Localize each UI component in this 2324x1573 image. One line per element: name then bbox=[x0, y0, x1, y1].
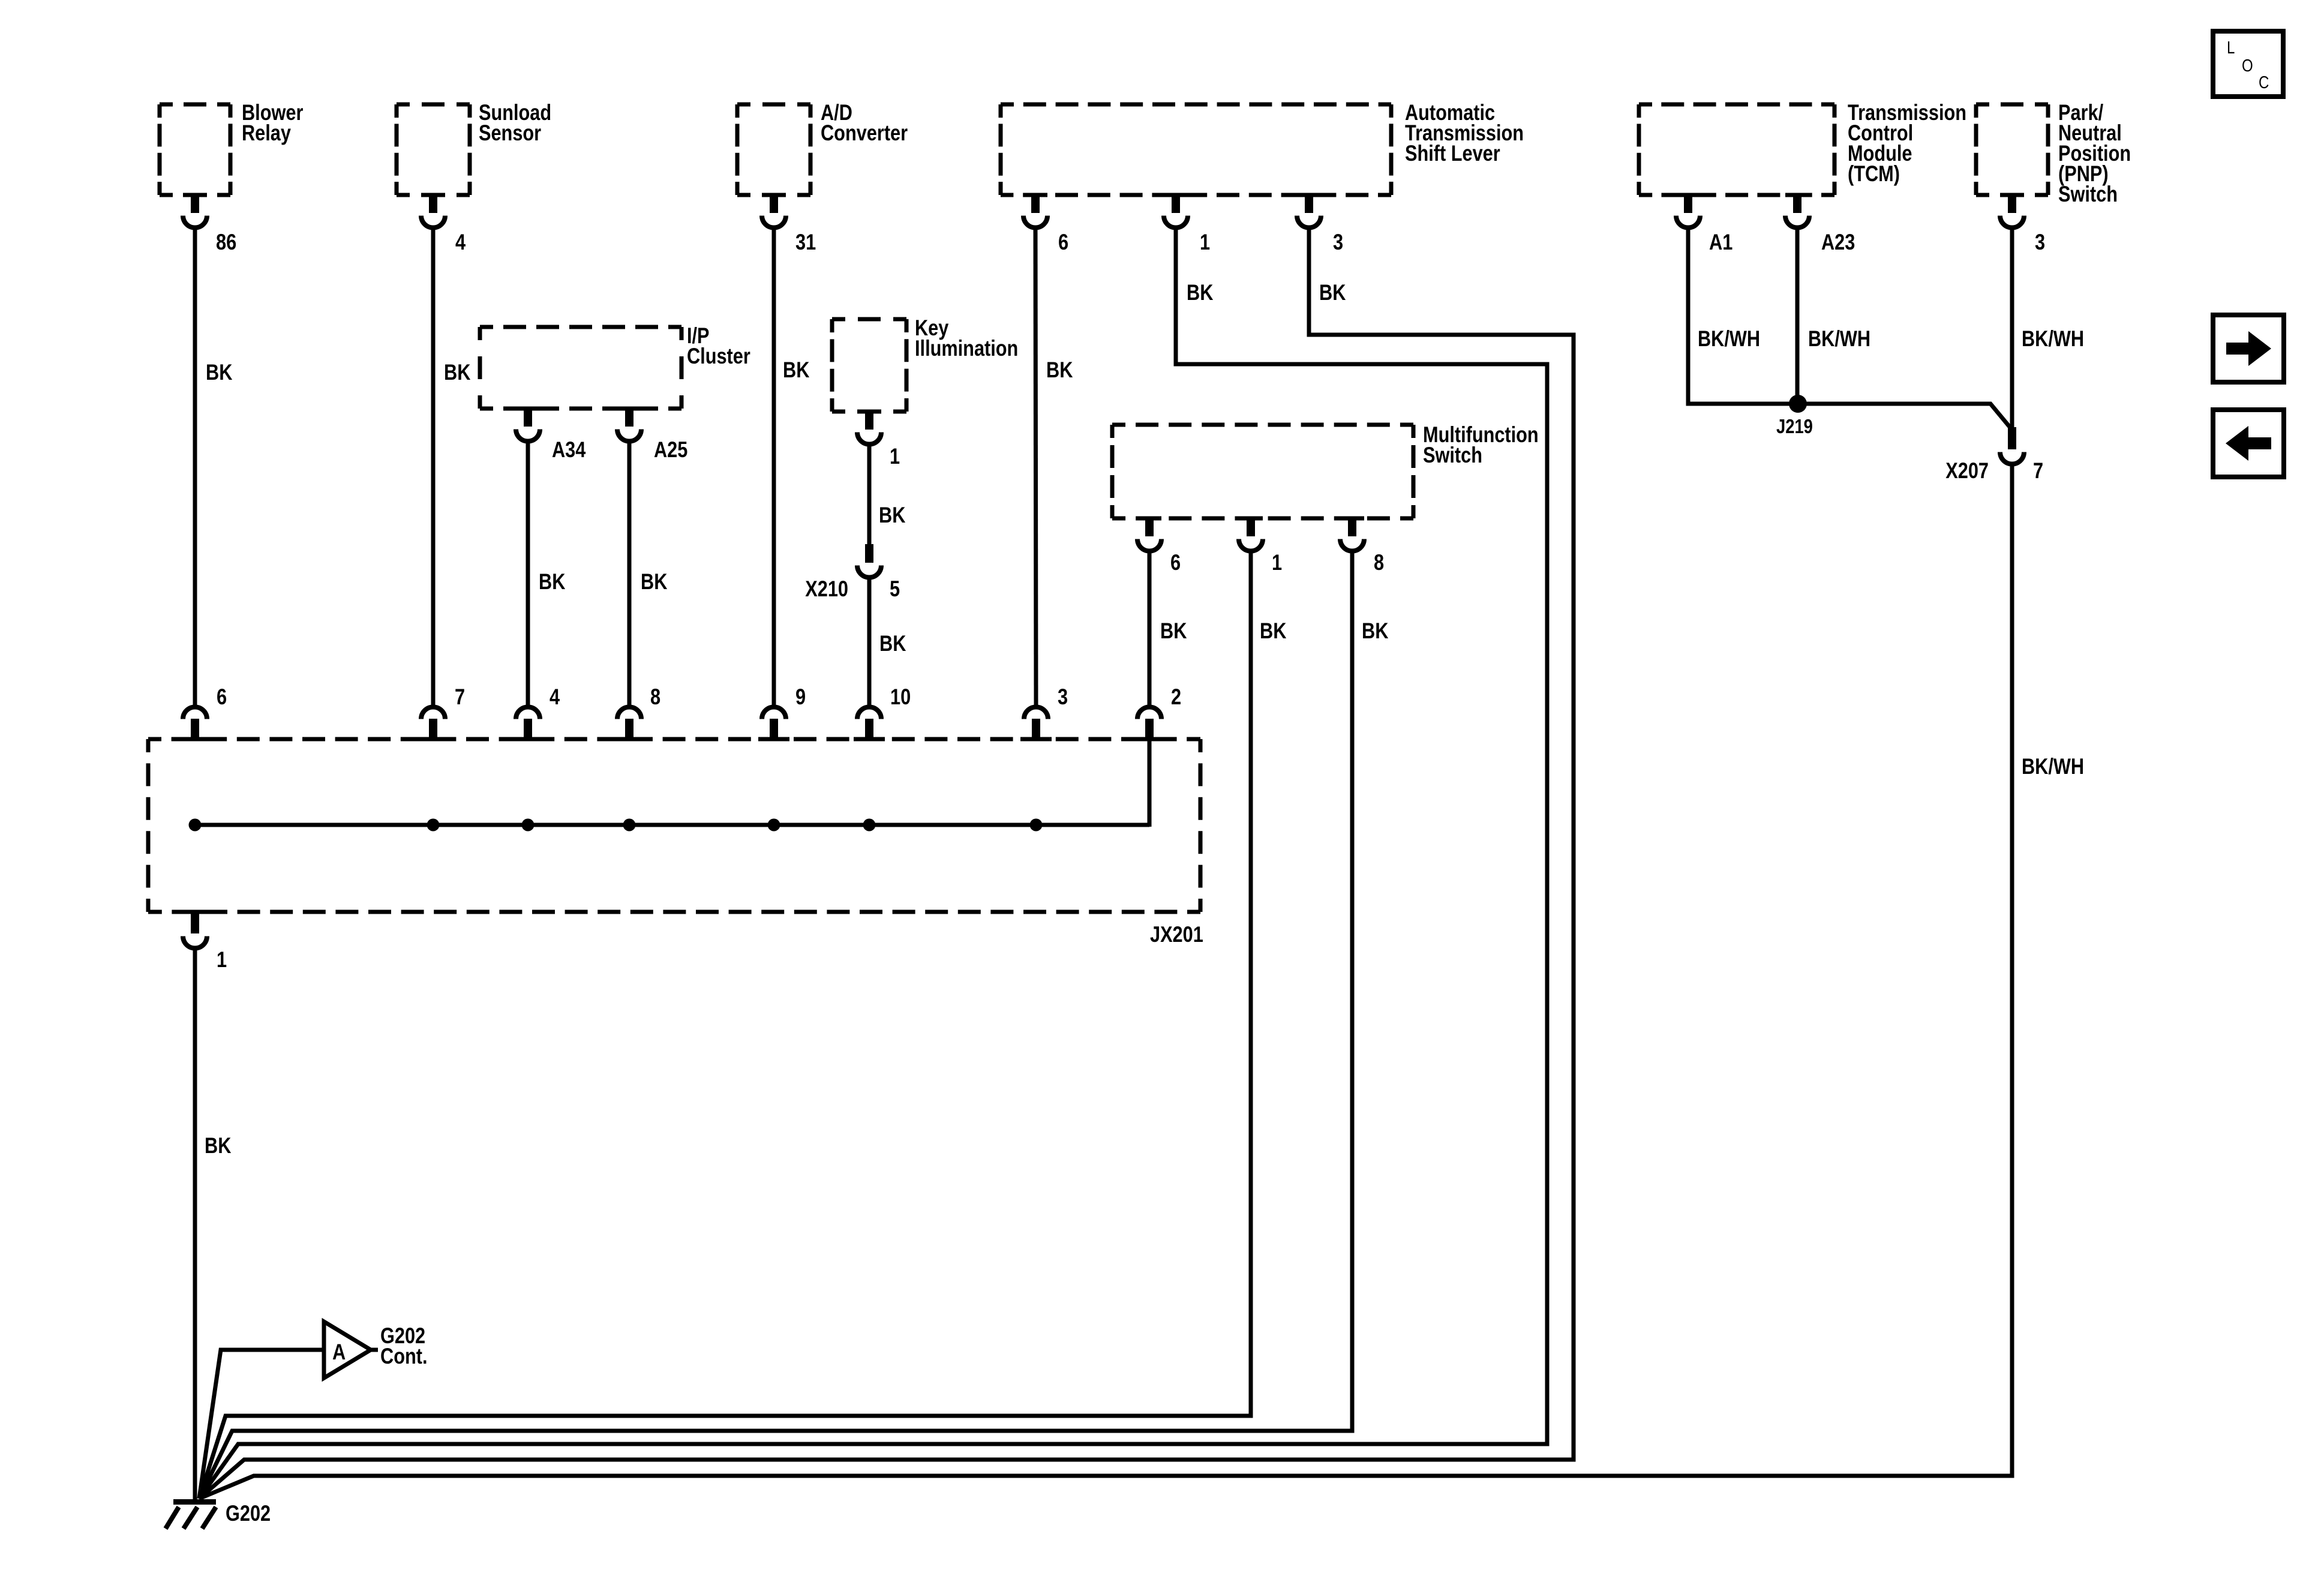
svg-text:C: C bbox=[2259, 73, 2269, 92]
pin A34 I/P Cluster bbox=[516, 407, 540, 411]
svg-text:BK/WH: BK/WH bbox=[2022, 754, 2084, 779]
wire Shift Lever 6 to JX201 pin 3 (BK) bbox=[1035, 226, 1036, 706]
svg-text:1: 1 bbox=[1200, 230, 1210, 254]
junction dot on JX201 bus at x=1727 bbox=[1030, 819, 1043, 831]
svg-text:31: 31 bbox=[795, 230, 816, 254]
pin 4 Sunload Sensor bbox=[421, 193, 445, 197]
svg-text:X207: X207 bbox=[1945, 458, 1989, 483]
wire I/P Cluster A25 to JX201 pin 8 (BK) bbox=[627, 439, 632, 706]
svg-text:A1: A1 bbox=[1709, 230, 1733, 254]
box Sunload Sensor bbox=[397, 103, 470, 107]
pin 86 Blower Relay bbox=[183, 193, 207, 197]
wire splice run A1-J219-X207 bbox=[1688, 404, 2011, 428]
svg-text:2: 2 bbox=[1171, 685, 1181, 709]
JX201 pin 3 bbox=[1024, 707, 1048, 719]
svg-text:BK: BK bbox=[1260, 619, 1287, 643]
svg-text:A: A bbox=[332, 1340, 346, 1364]
pin 1 Multifunction Switch bbox=[1239, 517, 1263, 521]
svg-text:3: 3 bbox=[2035, 230, 2045, 254]
box Park/Neutral Position PNP Switch bbox=[1976, 103, 2048, 107]
wire X210 to JX201 pin 10 (BK) bbox=[867, 577, 872, 706]
box Blower Relay bbox=[160, 103, 230, 107]
JX201 pin 4 bbox=[516, 707, 540, 719]
wire Blower Relay 86 to JX201 pin 6 (BK) bbox=[193, 226, 197, 706]
arrow next page (right) bbox=[2213, 315, 2284, 382]
svg-text:O: O bbox=[2242, 56, 2253, 76]
box JX201 junction block bbox=[148, 737, 1200, 742]
wire JX201 pin 2 to bus bbox=[1148, 741, 1152, 827]
svg-text:7: 7 bbox=[2033, 458, 2043, 483]
junction dot on JX201 bus at x=722 bbox=[427, 819, 440, 831]
JX201 pin 7 bbox=[421, 707, 445, 719]
arrow previous page (left) bbox=[2213, 410, 2284, 477]
svg-text:10: 10 bbox=[890, 685, 911, 709]
svg-text:BK: BK bbox=[1046, 358, 1073, 382]
JX201 pin 9 bbox=[762, 707, 786, 719]
JX201 pin 2 bbox=[1137, 707, 1161, 719]
svg-text:G202: G202 bbox=[226, 1501, 271, 1526]
svg-text:8: 8 bbox=[650, 685, 660, 709]
svg-text:Sensor: Sensor bbox=[479, 121, 541, 145]
svg-text:Switch: Switch bbox=[2058, 182, 2118, 206]
junction dot on JX201 bus at x=1290 bbox=[768, 819, 780, 831]
pin 3 Shift Lever bbox=[1297, 193, 1321, 197]
wire A/D Converter 31 to JX201 pin 9 (BK) bbox=[772, 226, 776, 706]
svg-text:BK: BK bbox=[879, 631, 906, 656]
svg-text:8: 8 bbox=[1374, 550, 1384, 575]
pin 31 A/D Converter bbox=[762, 193, 786, 197]
svg-text:Cluster: Cluster bbox=[687, 344, 750, 368]
wire Sunload Sensor 4 to JX201 pin 7 (BK) bbox=[431, 226, 436, 706]
connector A to G202 Cont. bbox=[371, 1348, 378, 1352]
svg-text:BK: BK bbox=[879, 503, 906, 527]
svg-text:BK: BK bbox=[444, 360, 471, 385]
wire TCM A23 down (BK/WH) bbox=[1795, 226, 1800, 406]
svg-text:7: 7 bbox=[455, 685, 465, 709]
svg-text:A25: A25 bbox=[654, 437, 687, 462]
svg-text:3: 3 bbox=[1333, 230, 1343, 254]
wire Shift Lever 3 to G202 (BK) bbox=[199, 226, 1574, 1499]
box Automatic Transmission Shift Lever bbox=[1001, 103, 1391, 107]
wire TCM A1 down (BK/WH) bbox=[1686, 226, 1691, 406]
svg-text:BK: BK bbox=[539, 569, 566, 594]
box A/D Converter bbox=[737, 103, 810, 107]
pin A1 TCM bbox=[1676, 193, 1700, 197]
junction J219 bbox=[1789, 395, 1807, 413]
JX201 pin 10 bbox=[857, 707, 881, 719]
svg-text:1: 1 bbox=[1272, 550, 1282, 575]
svg-text:Converter: Converter bbox=[821, 121, 908, 145]
pin 1 Key Illumination bbox=[857, 410, 881, 414]
pin 6 Shift Lever bbox=[1023, 193, 1047, 197]
svg-text:(TCM): (TCM) bbox=[1848, 161, 1900, 186]
wire PNP 3 down (BK/WH) bbox=[2010, 226, 2014, 428]
svg-text:BK: BK bbox=[205, 1133, 232, 1158]
svg-text:BK: BK bbox=[1160, 619, 1187, 643]
svg-text:Illumination: Illumination bbox=[915, 336, 1018, 361]
svg-text:6: 6 bbox=[1058, 230, 1068, 254]
svg-text:Shift Lever: Shift Lever bbox=[1405, 141, 1500, 166]
junction dot on JX201 bus at x=1049 bbox=[623, 819, 636, 831]
wire JX201 pin 1 to G202 (BK) bbox=[193, 947, 197, 1502]
svg-text:Relay: Relay bbox=[242, 121, 291, 145]
svg-text:4: 4 bbox=[455, 230, 466, 254]
wire Multifunction 6 to JX201 pin 2 (BK) bbox=[1148, 550, 1152, 706]
pin 8 Multifunction Switch bbox=[1340, 517, 1364, 521]
pin A23 TCM bbox=[1785, 193, 1809, 197]
svg-text:A23: A23 bbox=[1821, 230, 1855, 254]
LOC reference box bbox=[2213, 31, 2283, 97]
svg-text:BK: BK bbox=[1187, 280, 1214, 305]
svg-text:BK: BK bbox=[1319, 280, 1346, 305]
ground G202 bbox=[173, 1499, 216, 1505]
svg-text:JX201: JX201 bbox=[1150, 922, 1203, 947]
svg-text:BK/WH: BK/WH bbox=[1698, 326, 1760, 351]
svg-text:X210: X210 bbox=[805, 577, 848, 601]
svg-text:1: 1 bbox=[890, 444, 900, 469]
svg-text:6: 6 bbox=[1170, 550, 1181, 575]
svg-text:86: 86 bbox=[216, 230, 236, 254]
connector X207 pin 7 bbox=[2008, 427, 2016, 449]
junction dot on JX201 bus at x=325 bbox=[189, 819, 202, 831]
svg-text:L: L bbox=[2227, 38, 2235, 58]
wire Key Illumination 1 to X210 (BK) bbox=[867, 442, 872, 544]
svg-text:BK: BK bbox=[783, 358, 810, 382]
junction dot on JX201 bus at x=880 bbox=[522, 819, 535, 831]
wire Multifunction 1 to G202 (BK) bbox=[199, 550, 1251, 1499]
svg-text:Switch: Switch bbox=[1423, 443, 1482, 467]
box I/P Cluster bbox=[480, 325, 681, 329]
svg-text:J219: J219 bbox=[1776, 415, 1813, 437]
wire I/P Cluster A34 to JX201 pin 4 (BK) bbox=[526, 439, 530, 706]
connector X210 pin 5 bbox=[865, 544, 873, 563]
JX201 internal ground bus bbox=[195, 823, 1149, 827]
pin 1 Shift Lever bbox=[1164, 193, 1188, 197]
svg-text:BK: BK bbox=[641, 569, 668, 594]
svg-text:3: 3 bbox=[1058, 685, 1068, 709]
pin A25 I/P Cluster bbox=[617, 407, 641, 411]
wire Multifunction 8 to G202 (BK) bbox=[199, 550, 1352, 1499]
pin 3 PNP Switch bbox=[2000, 193, 2024, 197]
wire tap to G202 Cont. bbox=[199, 1350, 324, 1499]
svg-text:4: 4 bbox=[550, 685, 560, 709]
box Multifunction Switch bbox=[1112, 423, 1413, 427]
svg-text:9: 9 bbox=[795, 685, 806, 709]
wire Shift Lever 1 to G202 (BK) bbox=[199, 226, 1547, 1499]
svg-text:5: 5 bbox=[890, 577, 900, 601]
svg-text:BK: BK bbox=[1362, 619, 1389, 643]
svg-text:A34: A34 bbox=[552, 437, 586, 462]
pin 6 Multifunction Switch bbox=[1137, 517, 1161, 521]
JX201 pin 8 bbox=[617, 707, 641, 719]
junction dot on JX201 bus at x=1449 bbox=[863, 819, 876, 831]
box Key Illumination bbox=[832, 317, 906, 322]
JX201 pin 6 bbox=[183, 707, 207, 719]
svg-text:6: 6 bbox=[217, 685, 227, 709]
svg-text:BK/WH: BK/WH bbox=[2022, 326, 2084, 351]
svg-text:BK: BK bbox=[206, 360, 233, 385]
box Transmission Control Module TCM bbox=[1639, 103, 1834, 107]
svg-text:1: 1 bbox=[217, 947, 227, 972]
svg-text:Cont.: Cont. bbox=[380, 1344, 428, 1368]
JX201 pin 1 (bottom) bbox=[183, 910, 207, 914]
wire X207 to G202 (BK/WH) bbox=[199, 464, 2012, 1499]
svg-text:BK/WH: BK/WH bbox=[1808, 326, 1870, 351]
